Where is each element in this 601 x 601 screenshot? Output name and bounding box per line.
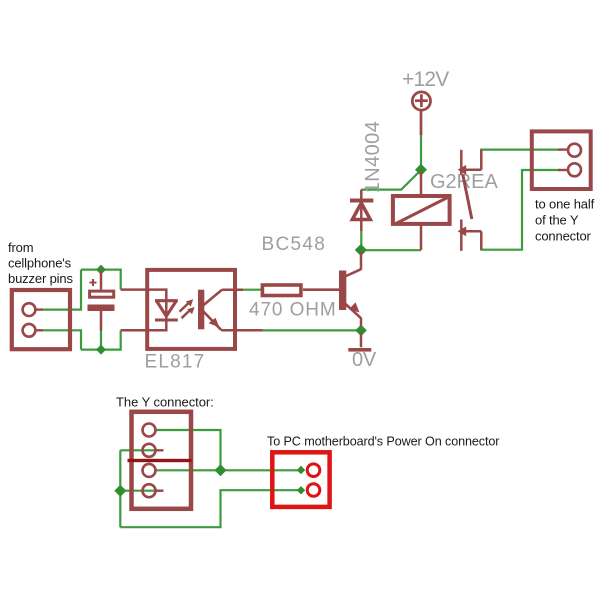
svg-text:from: from (8, 240, 33, 255)
wire bottom rail to cap and opto cathode (81, 330, 121, 349)
diode D1 1N4004 (350, 190, 373, 231)
+12V supply symbol (412, 92, 430, 135)
relay coil K1 (393, 171, 450, 250)
wire Y-conn pin4 to left bus (120, 490, 160, 492)
Y connector J1 (132, 412, 192, 509)
switch arrow bottom (458, 226, 467, 236)
wire node to diode top (361, 170, 421, 190)
opto emitter arrow (209, 318, 220, 328)
svg-text:to one half: to one half (535, 197, 595, 212)
junction node at +12V branch (415, 164, 427, 176)
svg-text:cellphone's: cellphone's (8, 256, 72, 271)
opto phototransistor (198, 290, 204, 330)
opto arrow head 1 (186, 299, 193, 306)
junction node cap top rail (96, 265, 106, 275)
junction node cap bottom rail (96, 345, 106, 355)
svg-text:1N4004: 1N4004 (362, 121, 384, 193)
junction node Y-conn pins 1+3 (215, 464, 227, 476)
wire emitter node to ground (360, 333, 363, 347)
svg-text:470 OHM: 470 OHM (249, 299, 337, 320)
wire cellphone pin1 to top rail (42, 270, 81, 310)
svg-text:connector: connector (535, 229, 592, 244)
resistor R1 470 OHM (262, 285, 301, 296)
wire opto collector to resistor (241, 289, 261, 291)
svg-text:EL817: EL817 (145, 352, 206, 373)
wire left bus vertical (119, 450, 121, 527)
svg-text:The Y connector:: The Y connector: (116, 395, 214, 410)
wire opto emitter to transistor emitter node (261, 329, 360, 331)
wire Y-conn pin2 to left bus (120, 449, 160, 451)
svg-text:of the Y: of the Y (535, 213, 579, 228)
junction node Y-conn pins 2+4 (114, 485, 126, 497)
capacitor C1 (polarized) (88, 271, 115, 331)
wire bottom route to PC connector pin 2 (120, 490, 301, 527)
wire Y-conn pin3 to PC connector pin 1 (156, 469, 302, 471)
opto arrow head 2 (187, 307, 194, 314)
svg-text:0V: 0V (352, 349, 377, 371)
wire collector node to relay coil pin 2 (360, 249, 421, 251)
wire diode bottom to collector node (360, 229, 362, 249)
opto anode pin (121, 290, 167, 301)
optocoupler U1 EL817 (121, 270, 263, 349)
junction dot at PC connector pin 1 (297, 466, 305, 474)
transistor Q1 BC548 (303, 252, 361, 328)
wire from +12V to node (420, 133, 422, 169)
ground 0V bar (348, 348, 371, 352)
relay contact switch (461, 150, 481, 251)
PC power-on connector (red) (272, 452, 329, 507)
opto LED (155, 299, 178, 302)
junction node at emitter/ground (355, 325, 367, 337)
opto light arrows (180, 303, 190, 312)
connector SV2 (to one half of Y) (532, 131, 591, 189)
svg-text:buzzer pins: buzzer pins (8, 271, 73, 286)
wire Y-conn pin1 down to junction (156, 430, 221, 469)
wire cap bottom lead (100, 329, 102, 350)
svg-text:To PC motherboard's Power On c: To PC motherboard's Power On connector (267, 435, 499, 449)
junction node at collector/diode (355, 244, 367, 256)
svg-text:BC548: BC548 (262, 234, 327, 255)
wire switch bottom to connector SV2 pin 2 (481, 170, 560, 250)
wire cellphone pin2 to bottom rail (42, 330, 81, 349)
connector SV1 (from cellphone) (12, 290, 70, 349)
gray value labels (145, 68, 499, 373)
transistor emitter arrow (349, 302, 360, 312)
dark red mark line on Y connector (128, 459, 192, 462)
junction dot at PC connector pin 2 (297, 486, 305, 494)
svg-text:+12V: +12V (402, 68, 449, 91)
wire switch top to connector SV2 pin 1 (481, 150, 560, 169)
wire top rail to cap and opto anode (81, 270, 121, 290)
opto cathode pin (121, 322, 167, 331)
switch arrow top (458, 165, 467, 175)
